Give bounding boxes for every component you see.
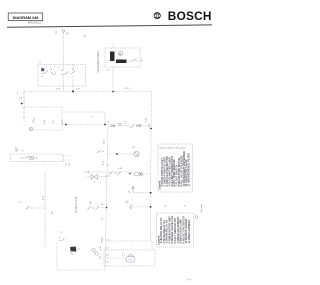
svg-text:n: n	[132, 200, 133, 202]
svg-text:12 INTERFERENCE FILTER: 12 INTERFERENCE FILTER	[187, 153, 191, 187]
wire y258 inside box	[105, 257, 126, 259]
svg-text:WFK2401UC: WFK2401UC	[28, 21, 42, 24]
wire N to rail	[62, 86, 64, 92]
valve V1	[91, 174, 98, 179]
bus ticks bottom	[105, 240, 109, 262]
junction dot heater	[116, 153, 118, 155]
motor box M1	[105, 48, 140, 67]
contact a	[42, 71, 49, 74]
legend box 2	[157, 213, 194, 247]
pressure switch B1	[88, 206, 100, 210]
title box	[8, 13, 43, 21]
motor box top stub	[112, 43, 114, 48]
wire pressure to bus	[99, 207, 107, 209]
heater circle	[134, 151, 139, 156]
wire N down	[62, 33, 64, 65]
svg-text:c: c	[129, 185, 130, 187]
rail L	[24, 91, 151, 93]
contact bottom left	[59, 239, 65, 241]
junction dot	[150, 206, 152, 208]
wire z1 right	[24, 106, 62, 108]
heater wire	[107, 153, 133, 155]
svg-text:11 WIRE HARNESS: 11 WIRE HARNESS	[187, 220, 191, 244]
terminal circle b	[139, 172, 143, 176]
svg-text:NTC: NTC	[16, 146, 19, 151]
bus tick y176	[106, 175, 110, 177]
dispenser symbol	[126, 257, 135, 263]
svg-text:circulation motor: circulation motor	[96, 51, 100, 72]
rail y270	[57, 269, 105, 271]
wire through box right	[72, 65, 74, 92]
contact pair	[129, 125, 135, 128]
terminal y172 left	[84, 171, 89, 173]
wire y112	[63, 111, 105, 113]
rail y124	[62, 124, 105, 126]
junction dot pressure bus	[106, 207, 108, 209]
switch box S1	[38, 65, 86, 87]
legend2 entries	[156, 215, 191, 245]
svg-text:S(M)1: S(M)1	[102, 236, 104, 243]
junction dot	[72, 90, 74, 92]
contact on bus y151	[97, 150, 104, 153]
motor contact	[130, 59, 139, 62]
switch y206	[129, 204, 133, 207]
wire x152 down	[151, 241, 153, 250]
wire y206 to bus	[133, 206, 151, 208]
junction dot y172	[129, 173, 131, 175]
bus right vertical	[149, 92, 152, 242]
door switch contact	[118, 123, 123, 125]
wire y193 from bus right	[134, 192, 151, 194]
terminal circles	[137, 125, 139, 127]
terminal N	[62, 30, 65, 33]
door contact terminals	[111, 125, 113, 127]
svg-text:0.14 stby: 0.14 stby	[200, 203, 203, 212]
NTC wires right	[63, 156, 71, 160]
terminal circle	[130, 207, 132, 209]
svg-text:Contacts shown in off position: Contacts shown in off position	[159, 147, 186, 150]
junction dot z1	[21, 103, 23, 105]
contact on y172	[109, 172, 121, 175]
motor winding bar vertical	[110, 52, 115, 62]
svg-text:Control Unit: Control Unit	[74, 197, 78, 213]
wire x62 down	[61, 107, 63, 130]
wire x57 down	[56, 242, 58, 270]
wire sensor right	[33, 129, 62, 131]
svg-text:BOSCH: BOSCH	[168, 9, 212, 23]
wire through box left	[62, 65, 64, 87]
junction dot	[65, 124, 67, 126]
ground mark	[195, 216, 198, 219]
motor connector circles	[92, 248, 95, 251]
contact c	[70, 71, 76, 74]
sensor circle	[29, 127, 33, 131]
svg-text:N: N	[67, 32, 69, 36]
control unit left edge	[44, 172, 46, 248]
svg-text:• 1 •: • 1 •	[187, 279, 191, 281]
thermal cutout	[33, 118, 35, 124]
wire y126 to bus	[115, 125, 151, 127]
rail y172	[89, 171, 134, 173]
terminal circle pair	[135, 172, 139, 176]
capacitor C1	[41, 68, 44, 71]
svg-text:M: M	[119, 52, 121, 56]
rail y241 to bus right	[108, 240, 153, 242]
double bar	[125, 201, 128, 203]
motor circle M	[118, 51, 123, 56]
switch arrow y193	[128, 186, 134, 193]
dispenser box	[104, 250, 155, 266]
contact a terminals	[41, 70, 43, 77]
junction dot motor rail	[112, 91, 114, 93]
junction dot	[104, 124, 106, 126]
NTC element	[20, 156, 38, 160]
legend1 entries	[158, 151, 191, 190]
contact b	[61, 72, 69, 75]
drain pump M2	[70, 247, 76, 252]
Bosch logo symbol	[154, 13, 160, 19]
junction dot bus	[150, 128, 152, 130]
header rule	[7, 25, 212, 27]
NTC box	[11, 154, 64, 162]
wire to control unit	[34, 207, 46, 209]
svg-text:DIAGRAM #48: DIAGRAM #48	[13, 15, 40, 20]
wire x105 down	[104, 112, 106, 125]
junction dot	[150, 192, 152, 194]
motor winding bar horizontal	[116, 60, 127, 64]
wire motor to rail	[112, 67, 114, 92]
terminal tick	[55, 31, 57, 35]
wire left branch down	[23, 92, 25, 123]
legend box 1	[158, 144, 193, 192]
left contact	[26, 206, 34, 210]
valve stubs	[87, 176, 108, 178]
bus mid vertical	[105, 125, 108, 271]
relay K1	[51, 71, 56, 75]
motor terminal mark	[141, 60, 143, 62]
